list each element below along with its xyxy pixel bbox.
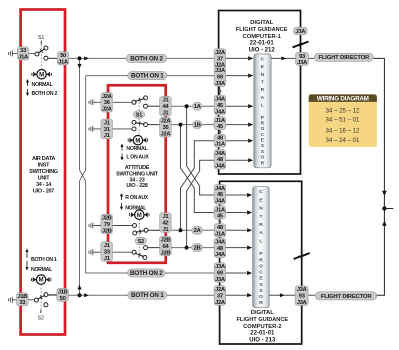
svg-text:ATTITUDE: ATTITUDE <box>125 165 150 171</box>
svg-text:C: C <box>259 270 263 276</box>
svg-text:J1B: J1B <box>58 290 68 296</box>
svg-text:UIO - 207: UIO - 207 <box>33 189 54 195</box>
svg-text:J4A: J4A <box>215 239 226 245</box>
svg-text:J2A: J2A <box>161 119 172 125</box>
svg-text:M: M <box>137 213 142 219</box>
svg-text:J1A: J1A <box>215 142 226 148</box>
svg-text:O: O <box>259 294 263 300</box>
svg-text:COMPUTER-1: COMPUTER-1 <box>243 34 282 40</box>
svg-text:INST: INST <box>38 163 50 169</box>
svg-text:R: R <box>261 120 265 126</box>
svg-text:1B: 1B <box>194 123 201 129</box>
svg-text:BOTH ON 2: BOTH ON 2 <box>32 91 58 97</box>
svg-text:N: N <box>259 206 263 212</box>
svg-text:J4A: J4A <box>215 252 226 258</box>
svg-text:J4A: J4A <box>215 109 226 115</box>
svg-text:UIO - 212: UIO - 212 <box>249 48 276 54</box>
svg-text:L: L <box>261 103 264 109</box>
svg-text:NORMAL: NORMAL <box>126 146 148 152</box>
svg-text:SWITCHING: SWITCHING <box>29 169 58 175</box>
svg-text:DIGITAL: DIGITAL <box>250 20 274 26</box>
svg-text:BOTH ON 1: BOTH ON 1 <box>131 292 164 299</box>
svg-text:J1A: J1A <box>215 207 226 213</box>
svg-text:J3A: J3A <box>215 81 226 87</box>
svg-text:L ON AUX: L ON AUX <box>126 155 149 161</box>
svg-text:A: A <box>261 95 265 101</box>
svg-text:NORMAL: NORMAL <box>32 82 54 88</box>
svg-text:FLIGHT DIRECTOR: FLIGHT DIRECTOR <box>321 294 373 300</box>
svg-text:N: N <box>261 72 265 78</box>
svg-text:34 – 51 – 01: 34 – 51 – 01 <box>326 117 360 124</box>
svg-text:22-01-01: 22-01-01 <box>250 41 275 47</box>
svg-text:R: R <box>259 257 263 263</box>
svg-text:J4A: J4A <box>215 186 226 192</box>
svg-text:T: T <box>260 214 263 220</box>
svg-text:C: C <box>261 57 265 63</box>
svg-text:J2B: J2B <box>161 250 171 256</box>
svg-text:2B: 2B <box>194 246 201 252</box>
svg-text:R: R <box>259 222 263 228</box>
svg-text:J1A: J1A <box>58 59 69 65</box>
svg-text:1A: 1A <box>194 104 202 110</box>
svg-text:J2A: J2A <box>215 287 226 293</box>
svg-text:J3A: J3A <box>215 68 226 74</box>
svg-text:FLIGHT DIRECTOR: FLIGHT DIRECTOR <box>319 55 371 61</box>
svg-text:J4A: J4A <box>215 151 226 157</box>
svg-text:J3A: J3A <box>297 287 308 293</box>
svg-text:C: C <box>261 132 265 138</box>
svg-text:J2A: J2A <box>215 300 226 306</box>
svg-text:R: R <box>259 300 263 306</box>
svg-text:J1B: J1B <box>17 294 27 300</box>
svg-text:R: R <box>261 87 265 93</box>
svg-text:O: O <box>261 155 265 161</box>
svg-text:FLIGHT GUIDANCE: FLIGHT GUIDANCE <box>236 27 288 33</box>
svg-text:BOTH ON 2: BOTH ON 2 <box>130 270 163 277</box>
svg-text:M: M <box>135 138 140 144</box>
svg-text:BOTH ON 1: BOTH ON 1 <box>131 73 164 80</box>
svg-text:S1: S1 <box>136 112 143 118</box>
svg-text:J2B: J2B <box>161 238 171 244</box>
svg-text:S2: S2 <box>138 239 145 245</box>
svg-text:2A: 2A <box>194 228 202 234</box>
svg-text:22-01-01: 22-01-01 <box>250 331 275 337</box>
svg-text:COMPUTER-2: COMPUTER-2 <box>243 324 281 330</box>
svg-text:SWITCHING UNIT: SWITCHING UNIT <box>116 171 159 177</box>
svg-text:M: M <box>39 72 44 78</box>
svg-text:J2A: J2A <box>161 132 172 138</box>
svg-text:UIO - 213: UIO - 213 <box>249 338 276 344</box>
svg-text:J2A: J2A <box>102 94 113 100</box>
svg-text:T: T <box>261 80 264 86</box>
svg-text:J1A: J1A <box>215 118 226 124</box>
svg-text:UIO - 228: UIO - 228 <box>126 183 147 189</box>
svg-text:WIRING DIAGRAM: WIRING DIAGRAM <box>317 96 369 103</box>
svg-text:L: L <box>260 238 263 244</box>
svg-text:A: A <box>259 230 263 236</box>
svg-text:FLIGHT GUIDANCE: FLIGHT GUIDANCE <box>237 317 289 323</box>
svg-text:R ON AUX: R ON AUX <box>125 195 149 201</box>
svg-text:R: R <box>261 160 265 166</box>
svg-text:J2A: J2A <box>102 107 113 113</box>
svg-text:C: C <box>259 189 263 195</box>
svg-text:J4A: J4A <box>215 199 226 205</box>
svg-text:O: O <box>261 126 265 132</box>
svg-text:J2A: J2A <box>215 50 226 56</box>
svg-text:J3A: J3A <box>215 277 226 283</box>
svg-text:J2B: J2B <box>102 228 112 234</box>
svg-text:J2B: J2B <box>102 216 112 222</box>
svg-text:34 – 25 – 12: 34 – 25 – 12 <box>326 108 360 115</box>
svg-text:J4A: J4A <box>215 164 226 170</box>
svg-text:AIR DATA: AIR DATA <box>32 156 55 162</box>
svg-text:J1A: J1A <box>215 231 226 237</box>
svg-text:J3A: J3A <box>297 60 308 66</box>
svg-text:34 – 16 – 12: 34 – 16 – 12 <box>326 127 360 134</box>
svg-text:J3A: J3A <box>297 300 308 306</box>
svg-text:J3A: J3A <box>295 29 306 35</box>
svg-text:J1A: J1A <box>18 54 29 60</box>
svg-text:DIGITAL: DIGITAL <box>251 310 275 316</box>
svg-text:UNIT: UNIT <box>38 176 51 182</box>
svg-text:BOTH ON 1: BOTH ON 1 <box>31 257 57 263</box>
svg-text:O: O <box>259 263 263 269</box>
svg-text:S1: S1 <box>38 35 44 41</box>
svg-text:34 - 14: 34 - 14 <box>36 182 52 188</box>
svg-text:J4A: J4A <box>215 97 226 103</box>
svg-text:J3A: J3A <box>215 264 226 270</box>
svg-text:M: M <box>39 278 44 284</box>
svg-text:NORMAL: NORMAL <box>31 267 53 273</box>
svg-text:BOTH ON 2: BOTH ON 2 <box>130 55 163 62</box>
svg-text:34 – 24 – 01: 34 – 24 – 01 <box>326 137 360 144</box>
svg-text:S2: S2 <box>38 316 44 322</box>
